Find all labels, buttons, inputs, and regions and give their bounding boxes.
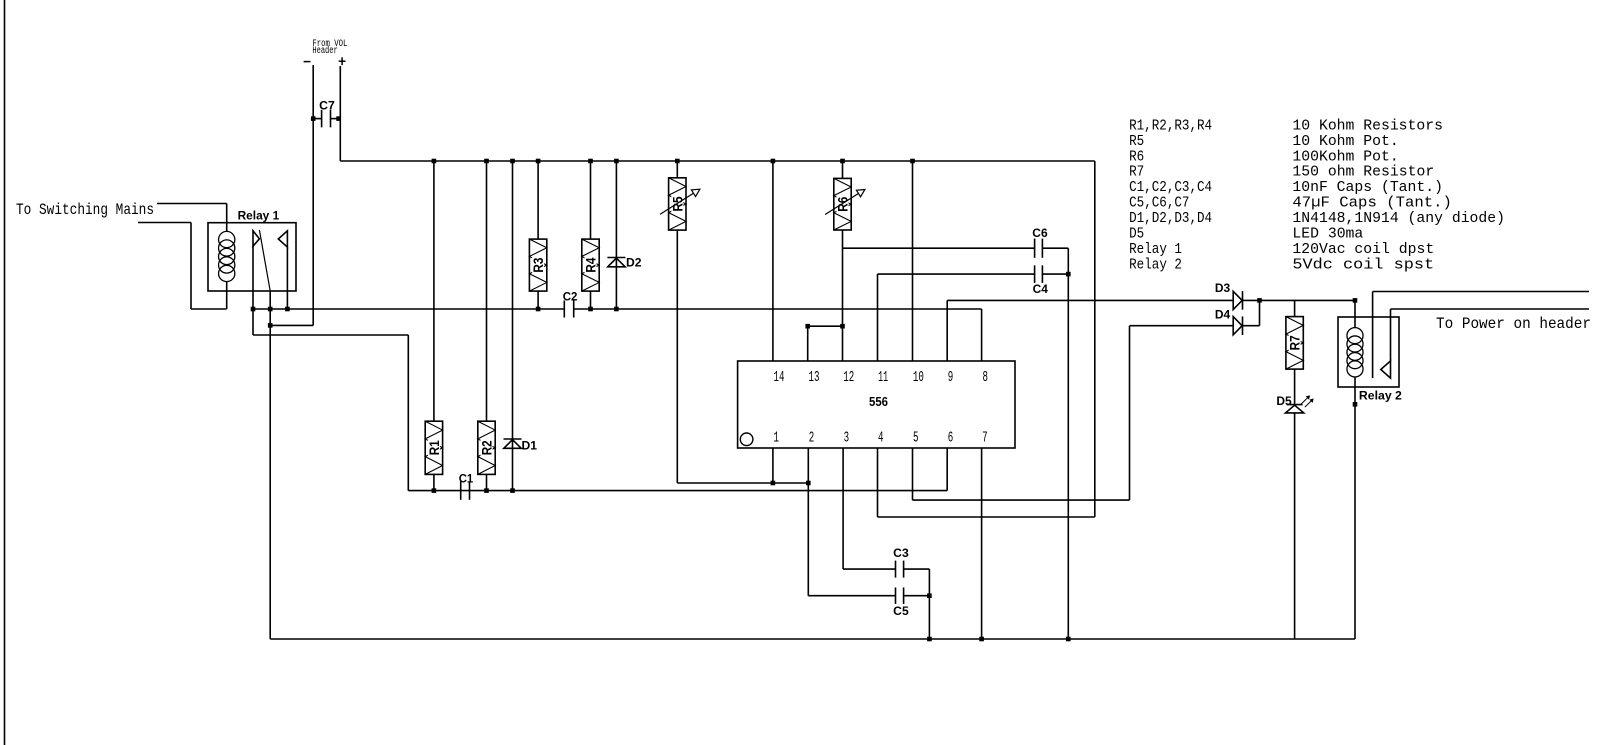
wire R6 bottom to pin12 — [842, 230, 844, 361]
wire pin2 vertical — [807, 448, 809, 596]
wire C3 C5 drop — [928, 569, 930, 639]
wire mains lower — [138, 222, 191, 224]
wire relay2 contact vertical — [1390, 309, 1392, 361]
relay Relay 2 coil — [1347, 328, 1363, 377]
wire D4 out — [1243, 325, 1260, 327]
wire D5 bottom — [1294, 413, 1296, 639]
svg-text:To Power on header: To Power on header — [1436, 315, 1591, 333]
svg-text:2: 2 — [809, 430, 815, 446]
wire coil2 bottom — [1354, 377, 1356, 639]
svg-text:D2: D2 — [626, 255, 642, 269]
node C4 drop junction — [1066, 272, 1071, 277]
capacitor C1 — [461, 481, 470, 499]
wire R4 top — [590, 161, 592, 239]
wire C6 to drop — [1042, 247, 1068, 249]
relay Relay 2 box — [1338, 317, 1399, 387]
capacitor C5 label — [893, 604, 909, 618]
svg-text:C1: C1 — [459, 472, 474, 486]
capacitor C6 — [1035, 239, 1043, 258]
svg-text:C6: C6 — [1032, 226, 1048, 240]
node relay1 contact B junction — [285, 307, 290, 312]
node pin2 junction — [806, 481, 811, 486]
node To Power on header label — [1436, 315, 1591, 333]
node pin14 top junction — [771, 159, 776, 164]
capacitor C6 label — [1032, 226, 1048, 240]
svg-text:R6: R6 — [1129, 149, 1144, 165]
node R4 bottom junction — [588, 307, 593, 312]
wire pin2 to C5 — [808, 595, 895, 597]
node R1 bottom junction — [432, 488, 437, 493]
led D5 light arrows — [1301, 396, 1313, 407]
wire R6 branch to C6 — [843, 247, 1035, 249]
node C3 bottom junction — [927, 637, 932, 642]
svg-text:Relay 2: Relay 2 — [1359, 389, 1402, 403]
wire pin9 to D3 — [947, 299, 1233, 301]
node relay1 contact A junction — [251, 307, 256, 312]
svg-text:4: 4 — [878, 430, 884, 446]
svg-text:D5: D5 — [1276, 394, 1292, 408]
wire mains lower to coil — [191, 308, 227, 310]
node parts list column 2 — [1292, 118, 1505, 273]
wire pin5 run — [913, 499, 1130, 501]
op-amp U1 556 box — [738, 361, 1015, 448]
wire pin5 vertical — [912, 448, 914, 500]
node parts list column 1 — [1129, 118, 1212, 273]
potentiometer R5 — [660, 178, 700, 230]
diode D3 label — [1215, 281, 1231, 295]
svg-text:5Vdc coil spst: 5Vdc coil spst — [1292, 258, 1434, 274]
wire R4 bottom — [590, 291, 592, 309]
diode D2 label — [626, 255, 642, 269]
resistor R4 — [582, 239, 599, 291]
node relay1 common branch junction — [268, 323, 273, 328]
capacitor C2 label — [563, 290, 578, 304]
svg-text:D4: D4 — [1215, 308, 1231, 322]
capacitor C2 — [564, 301, 573, 318]
svg-text:5: 5 — [913, 430, 919, 446]
node minus terminal — [304, 61, 311, 63]
svg-text:C2: C2 — [563, 290, 578, 304]
wire D4 in — [1130, 325, 1234, 327]
capacitor C3 — [896, 561, 904, 578]
svg-text:8: 8 — [983, 370, 989, 386]
node D1 top junction — [510, 159, 515, 164]
node R2 top junction — [484, 159, 489, 164]
wire top rail right drop — [1094, 161, 1096, 517]
svg-text:Relay 2: Relay 2 — [1129, 258, 1182, 274]
capacitor C1 label — [459, 472, 474, 486]
wire pin3 vertical — [842, 448, 844, 569]
wire C4 to drop — [1042, 273, 1068, 275]
wire contact A drop — [407, 335, 409, 491]
wire pin13 riser — [807, 326, 809, 361]
svg-text:150 ohm Resistor: 150 ohm Resistor — [1292, 165, 1434, 181]
wire mains lower drop — [190, 223, 192, 310]
diode D2 — [607, 258, 625, 267]
svg-text:1N4148,1N914 (any diode): 1N4148,1N914 (any diode) — [1292, 211, 1505, 227]
wire mains upper — [157, 203, 227, 205]
resistor R1 — [425, 421, 442, 474]
relay Relay 1 box — [208, 223, 296, 291]
wire pin10 vertical — [912, 161, 914, 361]
diode D1 — [504, 439, 522, 448]
wire left border — [4, 0, 6, 745]
node jog left junction — [805, 324, 810, 329]
svg-text:C1,C2,C3,C4: C1,C2,C3,C4 — [1129, 180, 1212, 196]
svg-text:C5,C6,C7: C5,C6,C7 — [1129, 196, 1189, 212]
wire R6 top — [842, 161, 844, 178]
svg-text:C4: C4 — [1033, 282, 1049, 296]
potentiometer R6 — [825, 178, 865, 230]
wire mid rail left of C2 — [253, 308, 564, 310]
relay Relay 2 label — [1359, 389, 1402, 403]
node C7 right junction — [336, 116, 341, 121]
svg-text:11: 11 — [878, 370, 888, 386]
node R5 top junction — [675, 159, 680, 164]
resistor R3 — [529, 239, 546, 291]
svg-text:R1,R2,R3,R4: R1,R2,R3,R4 — [1129, 118, 1212, 134]
svg-text:R3: R3 — [530, 257, 546, 272]
node D3 D4 junction — [1257, 298, 1262, 303]
wire top rail — [340, 160, 1095, 162]
svg-text:R7: R7 — [1129, 165, 1144, 181]
svg-text:14: 14 — [774, 370, 785, 386]
wire to power bottom — [1391, 308, 1590, 310]
relay Relay 1 contact B triangle — [278, 231, 287, 247]
wire relay1 coil bottom — [226, 282, 228, 309]
wire coil2 top — [1354, 300, 1356, 327]
capacitor C3 label — [893, 546, 909, 560]
svg-text:Relay 1: Relay 1 — [1129, 242, 1182, 258]
relay Relay 1 blade — [259, 230, 270, 291]
wire R5 to pin2 — [677, 482, 808, 484]
wire C3 to corner — [904, 568, 930, 570]
node D1 bottom junction — [510, 488, 515, 493]
node R6 top junction — [840, 159, 845, 164]
wire C5 to drop — [904, 595, 930, 597]
wire R2 bottom — [486, 474, 488, 490]
svg-text:12: 12 — [843, 370, 854, 386]
wire relay1 common branch — [270, 324, 313, 326]
node coil2 top junction — [1353, 298, 1358, 303]
resistor R7 — [1286, 317, 1303, 370]
wire pin6 drop — [946, 448, 948, 491]
wire left rail — [408, 490, 947, 492]
diode D5 label — [1276, 394, 1292, 408]
wire mid rail right of C2 — [574, 308, 982, 310]
wire pin12 pin13 jog — [808, 325, 843, 327]
node pin10 top junction — [910, 159, 915, 164]
diode D4 — [1233, 316, 1242, 335]
wire D1 top — [512, 161, 514, 491]
node pin1 junction — [771, 481, 776, 486]
capacitor C7 — [313, 110, 340, 128]
wire pin8 riser — [981, 309, 983, 361]
node C5 drop junction — [927, 593, 932, 598]
wire pin3 to C3 — [843, 568, 895, 570]
node pin numbers bottom row — [774, 430, 988, 446]
wire pin5 riser to D4 — [1129, 326, 1131, 500]
relay Relay 2 contact triangle — [1381, 361, 1391, 378]
svg-text:3: 3 — [844, 430, 850, 446]
node R3 top junction — [536, 159, 541, 164]
node R4 top junction — [588, 159, 593, 164]
svg-text:9: 9 — [948, 370, 954, 386]
svg-text:Relay 1: Relay 1 — [238, 209, 280, 223]
svg-text:7: 7 — [982, 430, 988, 446]
svg-text:R4: R4 — [583, 257, 599, 272]
wire pin14 vertical — [772, 161, 774, 361]
led D5 — [1286, 405, 1304, 413]
node jog right junction — [840, 324, 845, 329]
relay Relay 1 contact A triangle — [253, 231, 259, 246]
svg-text:10nF Caps (Tant.): 10nF Caps (Tant.) — [1292, 180, 1443, 196]
svg-text:C3: C3 — [893, 546, 909, 560]
wire relay1 contact A vertical — [252, 246, 254, 335]
node R3 bottom junction — [536, 307, 541, 312]
wire R2 top — [486, 161, 488, 421]
diode D1 label — [522, 439, 538, 453]
node From VOL Header label — [312, 39, 347, 57]
svg-text:To Switching Mains: To Switching Mains — [16, 201, 154, 219]
node R2 bottom junction — [484, 488, 489, 493]
wire R7 to D5 — [1294, 369, 1296, 405]
wire R3 bottom — [537, 291, 539, 309]
svg-text:10 Kohm Pot.: 10 Kohm Pot. — [1292, 134, 1398, 150]
wire C6 C4 drop — [1067, 248, 1069, 639]
svg-text:D5: D5 — [1129, 227, 1144, 243]
svg-text:556: 556 — [869, 395, 888, 409]
op-amp U1 pin1 notch — [740, 433, 753, 446]
wire mains upper drop to coil — [226, 204, 228, 232]
svg-text:R1: R1 — [426, 440, 442, 455]
wire bottom rail — [270, 638, 1355, 640]
wire D4 riser — [1259, 300, 1261, 325]
wire D2 top — [615, 161, 617, 309]
svg-text:120Vac coil dpst: 120Vac coil dpst — [1292, 242, 1434, 258]
svg-text:R5: R5 — [1129, 134, 1144, 150]
capacitor C5 — [896, 587, 904, 604]
svg-text:Header: Header — [312, 45, 337, 57]
wire pin11 to C4 — [878, 273, 1035, 275]
capacitor C4 label — [1033, 282, 1049, 296]
wire C7 plus vertical — [339, 66, 341, 161]
wire pin4 run — [878, 516, 1095, 518]
svg-text:100Kohm Pot.: 100Kohm Pot. — [1292, 149, 1398, 165]
node pin numbers top row — [774, 370, 989, 386]
relay Relay 1 label — [238, 209, 280, 223]
wire R7 top — [1294, 300, 1296, 316]
svg-text:R7: R7 — [1287, 335, 1303, 350]
node plus terminal — [339, 57, 346, 65]
svg-text:6: 6 — [948, 430, 954, 446]
node coil2 below junction — [1353, 402, 1358, 407]
node bottom rail C6 junction — [1066, 637, 1071, 642]
wire R1 bottom — [433, 474, 435, 490]
diode D4 label — [1215, 308, 1231, 322]
svg-text:D3: D3 — [1215, 281, 1231, 295]
wire R5 bottom drop — [676, 230, 678, 483]
node D2 bottom junction — [614, 307, 619, 312]
svg-text:D1,D2,D3,D4: D1,D2,D3,D4 — [1129, 211, 1212, 227]
node pin7 bottom junction — [979, 637, 984, 642]
wire R5 top — [676, 161, 678, 178]
wire pin7 vertical — [981, 448, 983, 639]
svg-text:1: 1 — [774, 430, 780, 446]
svg-text:47µF Caps (Tant.): 47µF Caps (Tant.) — [1292, 196, 1452, 212]
svg-text:C7: C7 — [319, 99, 335, 113]
svg-text:13: 13 — [809, 370, 820, 386]
capacitor C4 — [1035, 265, 1043, 283]
svg-text:D1: D1 — [522, 439, 538, 453]
node R1 top junction — [432, 159, 437, 164]
svg-text:10 Kohm Resistors: 10 Kohm Resistors — [1292, 118, 1443, 134]
node To Switching Mains label — [16, 201, 154, 219]
wire relay1 contact B vertical — [286, 247, 288, 309]
svg-text:LED 30ma: LED 30ma — [1292, 227, 1363, 243]
resistor R2 — [478, 421, 495, 474]
wire relay1 common vertical — [269, 291, 271, 639]
wire R3 top — [537, 161, 539, 239]
wire pin1 vertical — [772, 448, 774, 483]
diode D3 — [1233, 291, 1242, 310]
capacitor C7 label — [319, 99, 335, 113]
svg-text:R2: R2 — [479, 440, 495, 455]
op-amp U1 556 label — [869, 395, 888, 409]
wire relay2 blade vertical — [1372, 292, 1374, 379]
wire pin11 vertical — [877, 274, 879, 361]
wire pin9 vertical — [946, 300, 948, 361]
relay Relay 1 coil — [219, 231, 235, 281]
node C7 left junction — [311, 116, 316, 121]
wire contact A run — [253, 334, 408, 336]
svg-text:C5: C5 — [893, 604, 909, 618]
node D2 top junction — [614, 159, 619, 164]
node relay1 blade rail junction — [268, 307, 273, 312]
wire R1 top — [433, 161, 435, 421]
wire to power top — [1373, 291, 1589, 293]
wire C7 minus vertical — [312, 65, 314, 325]
svg-text:10: 10 — [913, 370, 924, 386]
wire pin4 vertical — [877, 448, 879, 517]
wire D3 out — [1243, 299, 1356, 301]
